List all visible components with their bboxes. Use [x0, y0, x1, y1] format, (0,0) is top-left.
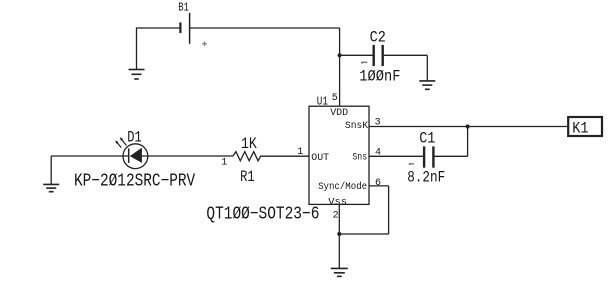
svg-text:1: 1 [297, 147, 303, 158]
svg-text:3: 3 [375, 117, 381, 128]
svg-text:C2: C2 [370, 29, 386, 47]
svg-text:Vss: Vss [328, 197, 347, 209]
svg-text:B1: B1 [178, 2, 189, 15]
svg-text:Sns: Sns [352, 152, 367, 164]
svg-text:C1: C1 [419, 130, 435, 148]
svg-text:1: 1 [221, 158, 227, 169]
svg-text:KP−2Ø12SRC−PRV: KP−2Ø12SRC−PRV [74, 172, 195, 192]
svg-text:R1: R1 [240, 168, 255, 186]
svg-text:5: 5 [332, 93, 338, 104]
svg-text:OUT: OUT [311, 152, 329, 164]
svg-text:K1: K1 [572, 119, 588, 137]
svg-text:Sync/Mode: Sync/Mode [318, 181, 367, 193]
svg-text:6: 6 [375, 178, 381, 189]
svg-text:2: 2 [333, 210, 339, 221]
svg-text:8.2nF: 8.2nF [407, 169, 445, 187]
svg-text:D1: D1 [127, 128, 142, 146]
svg-text:4: 4 [375, 148, 381, 159]
svg-text:VDD: VDD [330, 107, 348, 119]
svg-text:U1: U1 [317, 95, 328, 108]
svg-text:QT1ØØ−SOT23−6: QT1ØØ−SOT23−6 [206, 204, 319, 224]
svg-text:1ØØnF: 1ØØnF [359, 68, 400, 86]
svg-text:SnsK: SnsK [345, 120, 369, 132]
svg-text:1K: 1K [241, 135, 257, 153]
